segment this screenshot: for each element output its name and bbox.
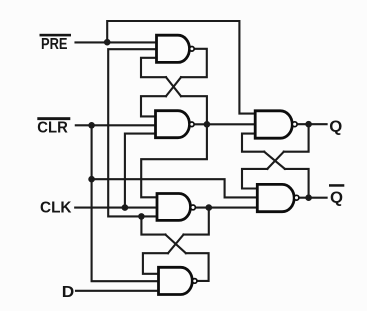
node CLR junction upper	[88, 122, 95, 129]
NAND gate U6 (Qbar output)	[257, 184, 294, 211]
NAND gate U5 (Q output)	[255, 111, 292, 138]
node Q junction	[305, 121, 312, 128]
svg-text:CLK: CLK	[40, 200, 72, 217]
wire Qbar diagonal of crossover X3	[264, 152, 285, 169]
wire n3 diagonal of crossover X2	[168, 235, 184, 254]
NAND gate U2 (clear latch)	[156, 111, 190, 138]
wire n4 up to junction	[141, 216, 165, 234]
wire CLK label lead to U3 middle input	[75, 207, 157, 209]
wire Q diagonal of crossover X3	[267, 152, 284, 169]
wire Qbar: U6 output to label	[299, 197, 327, 199]
wire CLR branch to U6 middle input	[92, 179, 258, 197]
svg-text:Q: Q	[330, 190, 343, 207]
wire Qbar up to crossover X3	[285, 169, 309, 198]
node n3 junction	[206, 204, 213, 211]
node n4 junction	[138, 213, 145, 220]
wire n3 into U4 top input	[143, 253, 168, 274]
wire n2 diagonal of crossover X1	[166, 77, 181, 96]
wire Q into U6 top input	[242, 169, 267, 189]
NAND gate U1 (preset latch top)	[157, 35, 190, 62]
wire n1: U1 output to cross-over	[181, 49, 207, 77]
wire D label lead to U4 bottom input	[76, 290, 159, 292]
node CLR junction middle	[88, 176, 95, 183]
wire n4 diagonal of crossover X2	[165, 235, 186, 254]
wire n2: U2 output to U5 input	[194, 123, 255, 125]
wire n1 into U2 top input	[141, 96, 166, 116]
node PRE junction	[104, 39, 111, 46]
wire Q down to crossover X3	[284, 124, 309, 152]
wire n2 down to U3 top input	[141, 124, 207, 197]
wire CLK branch up to U2 bottom input	[125, 134, 156, 208]
svg-text:Q: Q	[329, 118, 342, 135]
wire PRE label lead to G1 input	[76, 41, 157, 43]
wire n4 long branch to U1 middle input	[108, 49, 156, 216]
wire n4 into U3 bottom input	[141, 215, 157, 217]
wire CLR label lead to U2 input	[76, 124, 156, 126]
svg-text:PRE: PRE	[41, 36, 68, 53]
node Qbar junction	[305, 194, 312, 201]
svg-text:CLR: CLR	[37, 119, 68, 136]
wire Q: U5 output to label	[297, 123, 327, 125]
wire n4: U4 output up to crossover X2	[186, 253, 209, 281]
wire PRE branch up and over to gate U5	[107, 21, 255, 114]
wire n1 diagonal of crossover X1	[166, 77, 181, 96]
wire n3: U3 output to U6 bottom input	[195, 207, 257, 209]
NAND gate U3 (clock gate)	[157, 194, 190, 221]
svg-text:D: D	[62, 284, 74, 301]
wire n2 into U1 bottom input	[141, 58, 166, 77]
node n2 junction	[204, 121, 211, 128]
wire n3 down to crossover X2	[184, 208, 209, 235]
wire n2 up to crossover X1	[181, 96, 207, 124]
wire CLR vertical drop	[91, 125, 93, 179]
wire CLR down to U4 middle input	[92, 179, 159, 281]
node CLK junction	[122, 204, 129, 211]
wire Qbar into U5 bottom input	[242, 134, 264, 152]
NAND gate U4 (data gate)	[159, 267, 193, 294]
